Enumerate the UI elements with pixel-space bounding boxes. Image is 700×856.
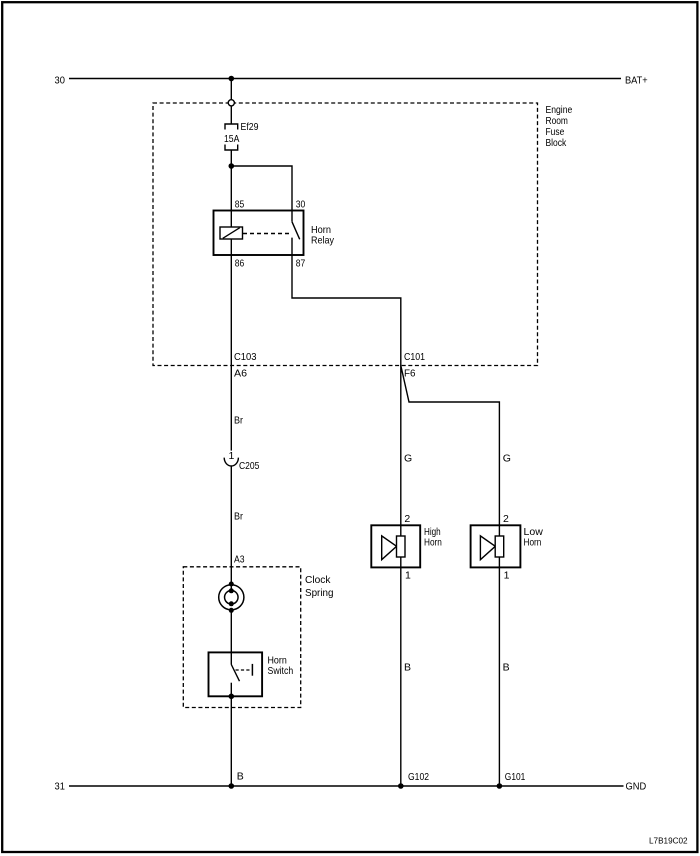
svg-text:G: G	[404, 453, 412, 465]
wire connector to fuse	[230, 106, 232, 124]
relay coil-switch dashed link	[243, 233, 290, 235]
horn switch blade	[231, 665, 239, 682]
svg-text:1: 1	[229, 450, 235, 462]
horn switch label	[268, 655, 294, 678]
svg-text:2: 2	[503, 513, 509, 525]
svg-text:L7B19C02: L7B19C02	[649, 837, 688, 846]
horn switch bottom contact stub	[230, 683, 232, 697]
branch wire C101 to low horn	[401, 366, 500, 526]
fuse Ef29 15A	[225, 124, 238, 150]
wire relay pin 86 to C103	[230, 239, 232, 366]
svg-text:Spring: Spring	[305, 587, 334, 599]
svg-text:G102: G102	[408, 771, 429, 783]
horn switch dashed actuator link	[236, 669, 251, 671]
wire C101 to high horn	[400, 366, 402, 526]
wire high horn to G102	[400, 567, 402, 786]
clock spring dashed box	[183, 567, 300, 708]
ground G101 junction	[497, 783, 503, 789]
horn relay label	[311, 224, 335, 247]
Engine Room Fuse Block dashed box	[153, 103, 538, 366]
horn relay box	[214, 211, 304, 256]
junction at horn switch ground pin	[229, 694, 235, 700]
horn switch actuator bar	[251, 664, 253, 676]
relay coil	[220, 227, 243, 239]
svg-text:Br: Br	[234, 415, 243, 427]
svg-text:B: B	[237, 771, 244, 783]
svg-text:Horn: Horn	[524, 537, 542, 549]
ground G102 junction	[398, 783, 404, 789]
svg-text:F6: F6	[404, 368, 416, 380]
high horn label	[424, 526, 442, 549]
svg-text:Switch: Switch	[268, 665, 294, 677]
svg-text:1: 1	[405, 570, 411, 582]
high horn box	[371, 525, 420, 567]
clock spring rotary coupler symbol	[219, 582, 244, 613]
svg-text:Horn: Horn	[424, 537, 442, 549]
svg-text:C205: C205	[239, 460, 260, 472]
horn switch box	[209, 652, 263, 696]
relay switch blade	[292, 222, 300, 240]
wire C103 to C205	[230, 366, 232, 451]
wire low horn to G101	[498, 567, 500, 786]
wire horn switch to ground bus	[230, 696, 232, 786]
svg-text:B: B	[503, 662, 510, 674]
svg-text:G: G	[503, 453, 511, 465]
svg-text:31: 31	[55, 781, 66, 793]
svg-text:Relay: Relay	[311, 235, 335, 247]
svg-text:BAT+: BAT+	[625, 75, 648, 87]
ground bus 31/GND	[69, 785, 624, 787]
low horn speaker symbol	[480, 525, 503, 567]
connector circle at fuse block boundary	[228, 100, 234, 106]
connector C205 symbol	[224, 458, 238, 466]
svg-text:B: B	[404, 662, 411, 674]
wire C205 to clock spring	[230, 466, 232, 584]
low horn box	[471, 525, 521, 567]
svg-text:A6: A6	[234, 368, 247, 380]
clock spring label	[305, 574, 334, 599]
svg-text:30: 30	[55, 75, 66, 87]
junction horn switch wire at ground bus	[229, 783, 235, 789]
wire clock spring to horn switch	[230, 610, 232, 664]
wire fuse to junction	[230, 150, 232, 166]
low horn label	[524, 526, 544, 549]
wire 30/BAT+ bus	[69, 78, 621, 80]
wire junction to relay pin 30	[231, 166, 292, 222]
wire relay pin 87 to C101	[292, 238, 401, 366]
wire junction to relay pin 85	[230, 166, 232, 227]
svg-text:30: 30	[296, 199, 306, 211]
junction below fuse	[229, 163, 235, 169]
junction on BAT+ bus	[229, 76, 235, 82]
high horn speaker symbol	[382, 525, 405, 567]
wire bus to fuse block	[230, 79, 232, 100]
svg-text:Clock: Clock	[305, 574, 331, 586]
svg-text:G101: G101	[505, 771, 526, 783]
svg-text:GND: GND	[626, 781, 647, 793]
svg-text:1: 1	[504, 570, 510, 582]
svg-text:86: 86	[235, 258, 245, 270]
svg-text:85: 85	[235, 199, 245, 211]
svg-text:C101: C101	[404, 351, 425, 363]
svg-text:15A: 15A	[224, 133, 239, 145]
svg-text:2: 2	[404, 513, 410, 525]
Engine Room Fuse Block label	[546, 104, 573, 149]
svg-text:Ef29: Ef29	[241, 121, 259, 133]
svg-text:87: 87	[296, 258, 306, 270]
svg-text:A3: A3	[234, 554, 245, 566]
svg-text:Br: Br	[234, 511, 243, 523]
svg-text:C103: C103	[234, 351, 257, 363]
svg-text:Block: Block	[546, 137, 567, 149]
